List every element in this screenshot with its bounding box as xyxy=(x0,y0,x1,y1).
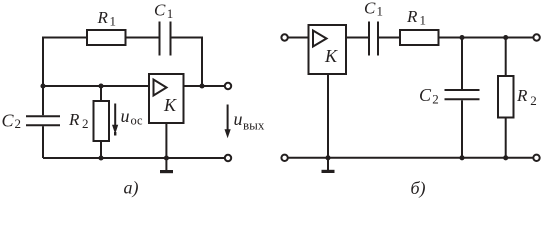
arrow u_out (circuit a) xyxy=(225,105,231,139)
svg-text:R: R xyxy=(97,8,109,27)
wire middle rail (circuit a) xyxy=(43,85,149,87)
terminal bottom right (circuit b) xyxy=(533,155,539,161)
terminal output top (circuit a) xyxy=(225,83,231,89)
wire C1 to output node (circuit a) xyxy=(172,38,203,87)
node C2 bottom junction (circuit b) xyxy=(459,155,464,160)
svg-text:1: 1 xyxy=(420,13,427,28)
wire C2 top lead (circuit a) xyxy=(42,86,44,115)
capacitor C2 (circuit a) xyxy=(26,116,60,125)
resistor R1 (circuit b) xyxy=(400,30,439,45)
ground (circuit a) xyxy=(160,158,173,172)
svg-text:а): а) xyxy=(124,178,139,199)
ground (circuit b) xyxy=(322,158,335,172)
capacitor C2 (circuit b) xyxy=(445,90,480,99)
wire R1 to C1 (circuit a) xyxy=(126,37,160,39)
wire R2 bottom lead (circuit b) xyxy=(505,118,507,158)
wire C2 top lead (circuit b) xyxy=(461,38,463,90)
svg-text:C: C xyxy=(154,1,166,20)
wire R2 bottom lead (circuit a) xyxy=(100,141,102,158)
wire top-left corner of circuit a xyxy=(43,38,88,87)
node ground junction (circuit b) xyxy=(325,155,330,160)
resistor R2 (circuit b) xyxy=(498,76,514,118)
svg-text:C: C xyxy=(419,85,432,105)
resistor R2 (circuit a) xyxy=(94,101,110,141)
svg-text:K: K xyxy=(163,95,177,115)
terminal input (circuit b) xyxy=(281,34,287,40)
svg-text:2: 2 xyxy=(530,93,537,108)
svg-text:C: C xyxy=(364,0,376,18)
op-amp U1 box K (circuit a) xyxy=(149,74,184,123)
svg-text:ос: ос xyxy=(131,114,144,128)
wire amplifier output (circuit a) xyxy=(184,85,225,87)
svg-text:1: 1 xyxy=(377,4,384,19)
svg-text:1: 1 xyxy=(110,14,117,29)
svg-text:2: 2 xyxy=(82,116,89,131)
node C2 top junction (circuit b) xyxy=(459,35,464,40)
terminal bottom left (circuit b) xyxy=(281,155,287,161)
capacitor C1 (circuit b) xyxy=(369,22,378,56)
wire bottom rail (circuit b) xyxy=(288,157,533,159)
wire C2 bottom lead (circuit a) xyxy=(42,126,44,158)
svg-text:вых: вых xyxy=(243,118,265,133)
svg-text:б): б) xyxy=(411,178,426,199)
node R2 bottom junction (circuit a) xyxy=(98,155,103,160)
node ground junction (circuit a) xyxy=(164,155,169,160)
wire R2 top lead (circuit a) xyxy=(100,86,102,101)
node output junction (circuit a) xyxy=(199,83,204,88)
svg-text:C: C xyxy=(2,110,15,130)
wire R2 top lead (circuit b) xyxy=(505,38,507,77)
node R2 bottom junction (circuit b) xyxy=(503,155,508,160)
svg-text:2: 2 xyxy=(15,116,22,131)
resistor R1 (circuit a) xyxy=(87,30,126,45)
op-amp U2 triangle (circuit b) xyxy=(313,31,327,47)
svg-text:R: R xyxy=(516,86,528,105)
svg-text:K: K xyxy=(324,46,338,66)
wire amplifier bottom lead (circuit a) xyxy=(165,123,167,158)
node R2 top junction (circuit b) xyxy=(503,35,508,40)
terminal output bottom (circuit a) xyxy=(225,155,231,161)
wire C1 to R1 (circuit b) xyxy=(379,37,400,39)
op-amp U2 box K (circuit b) xyxy=(309,25,347,74)
wire C2 bottom lead (circuit b) xyxy=(461,100,463,158)
wire R1 to output terminal (circuit b) xyxy=(439,37,534,39)
capacitor C1 (circuit a) xyxy=(160,22,171,56)
svg-text:R: R xyxy=(406,7,418,26)
wire bottom rail (circuit a) xyxy=(43,157,225,159)
op-amp U1 triangle (circuit a) xyxy=(154,80,167,96)
node R2 top junction (circuit a) xyxy=(98,83,103,88)
wire amplifier bottom lead (circuit b) xyxy=(327,74,329,158)
svg-text:R: R xyxy=(68,110,80,129)
svg-text:u: u xyxy=(234,109,243,129)
wire input (circuit b) xyxy=(288,37,308,39)
wire amplifier output (circuit b) xyxy=(346,37,368,39)
terminal output top (circuit b) xyxy=(533,34,539,40)
svg-text:u: u xyxy=(121,106,130,126)
svg-text:1: 1 xyxy=(167,6,174,21)
node rail left junction (circuit a) xyxy=(40,83,45,88)
svg-text:2: 2 xyxy=(432,91,439,106)
arrow u_oc (circuit a) xyxy=(112,104,118,136)
